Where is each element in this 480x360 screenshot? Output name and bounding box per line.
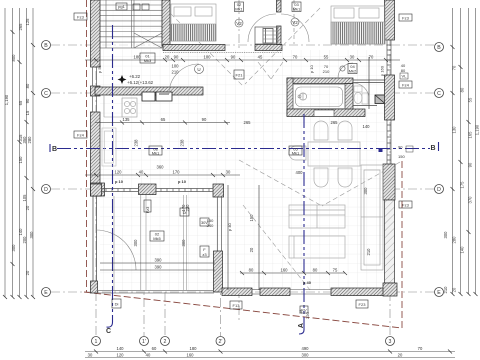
kitchen counter band bbox=[95, 87, 203, 95]
svg-text:Fz3: Fz3 bbox=[402, 203, 409, 208]
svg-text:C: C bbox=[44, 91, 48, 97]
svg-text:40: 40 bbox=[139, 170, 144, 175]
svg-text:Mk2: Mk2 bbox=[349, 69, 357, 74]
bed 2 bbox=[331, 6, 385, 44]
svg-text:Fz3: Fz3 bbox=[145, 206, 150, 213]
dining table + chairs bbox=[289, 121, 360, 187]
svg-text:300: 300 bbox=[302, 353, 310, 358]
svg-text:300: 300 bbox=[443, 231, 448, 239]
svg-text:300: 300 bbox=[29, 231, 34, 239]
svg-text:65: 65 bbox=[18, 100, 23, 105]
svg-text:360: 360 bbox=[157, 165, 165, 170]
rotated small p-texts bbox=[97, 64, 385, 285]
svg-text:240: 240 bbox=[207, 223, 214, 228]
svg-text:150: 150 bbox=[398, 154, 405, 159]
svg-text:C: C bbox=[437, 91, 441, 97]
svg-text:15: 15 bbox=[25, 110, 30, 115]
svg-text:210: 210 bbox=[172, 70, 180, 75]
svg-text:30: 30 bbox=[226, 170, 231, 175]
svg-text:55: 55 bbox=[468, 97, 473, 102]
svg-text:160: 160 bbox=[187, 353, 195, 358]
svg-text:2: 2 bbox=[164, 339, 167, 345]
svg-text:C: C bbox=[106, 328, 111, 335]
sofa + coffee table living bbox=[289, 205, 345, 258]
svg-text:90: 90 bbox=[174, 55, 179, 60]
svg-text:130: 130 bbox=[452, 126, 457, 134]
svg-text:3: 3 bbox=[389, 339, 392, 345]
svg-text:55: 55 bbox=[324, 55, 329, 60]
pantry cupboard bbox=[102, 128, 116, 166]
svg-text:45: 45 bbox=[258, 55, 263, 60]
svg-text:140: 140 bbox=[18, 228, 23, 236]
svg-text:265: 265 bbox=[18, 23, 23, 31]
small circles U / V2 bbox=[195, 18, 346, 74]
svg-text:1: 1 bbox=[95, 339, 98, 345]
svg-text:140: 140 bbox=[117, 346, 125, 351]
left rotated dim texts bbox=[4, 18, 34, 275]
wall right of stairs bbox=[162, 0, 170, 46]
svg-text:65: 65 bbox=[161, 117, 166, 122]
svg-text:U: U bbox=[197, 67, 200, 72]
svg-text:125: 125 bbox=[25, 18, 30, 26]
south wall of living area bbox=[222, 288, 252, 296]
svg-text:80: 80 bbox=[313, 268, 318, 273]
svg-text:p 160: p 160 bbox=[380, 65, 385, 76]
svg-text:180: 180 bbox=[190, 346, 198, 351]
svg-text:70: 70 bbox=[452, 65, 457, 70]
svg-text:80: 80 bbox=[460, 87, 465, 92]
svg-text:370: 370 bbox=[468, 196, 473, 204]
wardrobe bedroom1 bbox=[263, 27, 278, 43]
svg-text:280: 280 bbox=[27, 136, 32, 144]
svg-text:390: 390 bbox=[155, 265, 163, 270]
svg-text:Fz3: Fz3 bbox=[77, 15, 84, 20]
svg-text:20: 20 bbox=[165, 55, 170, 60]
left wall windows bbox=[93, 67, 97, 112]
svg-text:p 10: p 10 bbox=[309, 64, 314, 73]
svg-text:+6.22: +6.22 bbox=[129, 74, 141, 79]
svg-text:300: 300 bbox=[133, 239, 138, 247]
svg-text:20: 20 bbox=[25, 205, 30, 210]
svg-text:70: 70 bbox=[369, 55, 374, 60]
svg-text:p 10: p 10 bbox=[178, 179, 187, 184]
svg-text:+6.12(+13.62: +6.12(+13.62 bbox=[127, 80, 154, 85]
svg-text:490: 490 bbox=[302, 346, 310, 351]
svg-text:120: 120 bbox=[115, 170, 123, 175]
svg-text:70: 70 bbox=[418, 346, 423, 351]
svg-text:B: B bbox=[52, 146, 57, 153]
svg-text:Fz4: Fz4 bbox=[77, 133, 84, 138]
svg-text:265: 265 bbox=[331, 120, 339, 125]
svg-text:160: 160 bbox=[281, 268, 289, 273]
svg-text:20: 20 bbox=[249, 247, 254, 252]
svg-text:p 55: p 55 bbox=[97, 64, 102, 73]
WC fixtures bbox=[354, 86, 368, 104]
svg-text:Mk1: Mk1 bbox=[235, 7, 243, 12]
kitchen stove bbox=[104, 95, 137, 117]
svg-text:40: 40 bbox=[146, 353, 151, 358]
svg-text:390: 390 bbox=[155, 258, 163, 263]
svg-text:Di: Di bbox=[183, 210, 187, 215]
right exterior wall bbox=[385, 0, 395, 40]
svg-text:150: 150 bbox=[249, 214, 254, 222]
svg-text:E: E bbox=[44, 290, 48, 296]
svg-text:30: 30 bbox=[350, 55, 355, 60]
svg-text:1,190: 1,190 bbox=[4, 94, 9, 105]
svg-text:210: 210 bbox=[366, 248, 371, 256]
svg-text:pg1: pg1 bbox=[118, 4, 125, 9]
bathroom top wall bbox=[287, 78, 353, 84]
svg-text:175: 175 bbox=[460, 181, 465, 189]
svg-text:400: 400 bbox=[296, 170, 304, 175]
svg-text:800: 800 bbox=[11, 54, 16, 62]
svg-text:238: 238 bbox=[180, 139, 185, 147]
svg-text:Fz3: Fz3 bbox=[402, 16, 409, 21]
left exterior wall bbox=[91, 0, 105, 196]
svg-text:Fz4: Fz4 bbox=[402, 83, 409, 88]
svg-text:Mk5: Mk5 bbox=[153, 236, 161, 241]
svg-text:Di: Di bbox=[115, 302, 119, 307]
svg-text:200: 200 bbox=[22, 236, 27, 244]
svg-text:p 40: p 40 bbox=[303, 280, 312, 285]
wardrobe right bbox=[361, 165, 383, 270]
svg-text:Mk1: Mk1 bbox=[152, 151, 160, 156]
left glass wall lower bbox=[93, 196, 97, 284]
svg-text:90: 90 bbox=[25, 98, 30, 103]
svg-text:Mk3: Mk3 bbox=[144, 58, 152, 63]
svg-text:2': 2' bbox=[219, 339, 223, 345]
svg-text:30: 30 bbox=[88, 353, 93, 358]
svg-text:90: 90 bbox=[398, 145, 403, 150]
svg-text:V2: V2 bbox=[292, 20, 298, 25]
svg-text:80: 80 bbox=[25, 83, 30, 88]
svg-text:300: 300 bbox=[181, 239, 186, 247]
svg-text:100: 100 bbox=[172, 64, 180, 69]
blue dot on B line bbox=[379, 148, 383, 152]
bathroom bottom wall bbox=[287, 109, 365, 117]
svg-text:p 10: p 10 bbox=[115, 179, 124, 184]
svg-text:75: 75 bbox=[333, 268, 338, 273]
bathroom left wall bbox=[287, 78, 293, 116]
svg-text:140: 140 bbox=[460, 246, 465, 254]
svg-text:90: 90 bbox=[468, 162, 473, 167]
svg-text:140: 140 bbox=[363, 124, 371, 129]
svg-text:B: B bbox=[437, 45, 441, 51]
svg-text:300: 300 bbox=[363, 187, 368, 195]
WC partition walls bbox=[353, 57, 385, 109]
svg-text:90: 90 bbox=[202, 117, 207, 122]
terrace north wall piers + glazing bbox=[91, 184, 102, 196]
bathroom right wall bbox=[345, 84, 353, 110]
svg-text:170: 170 bbox=[173, 170, 181, 175]
svg-text:20: 20 bbox=[25, 270, 30, 275]
svg-text:A: A bbox=[298, 323, 305, 328]
closet bedroom2 bbox=[255, 27, 277, 44]
svg-text:F23: F23 bbox=[359, 302, 367, 307]
svg-text:280: 280 bbox=[452, 236, 457, 244]
svg-text:Mk1: Mk1 bbox=[293, 7, 301, 12]
svg-text:B: B bbox=[44, 43, 48, 49]
svg-text:80: 80 bbox=[249, 268, 254, 273]
svg-text:D: D bbox=[44, 187, 48, 193]
svg-text:220: 220 bbox=[305, 312, 310, 319]
svg-text:KV: KV bbox=[301, 308, 307, 313]
svg-text:1,190: 1,190 bbox=[475, 124, 480, 135]
svg-text:135: 135 bbox=[123, 117, 131, 122]
svg-text:300: 300 bbox=[11, 244, 16, 252]
svg-text:Mk1: Mk1 bbox=[292, 151, 300, 156]
bed 1 bbox=[171, 4, 216, 41]
svg-text:90: 90 bbox=[231, 55, 236, 60]
terrace joist lines bbox=[114, 195, 187, 290]
svg-text:20: 20 bbox=[452, 287, 457, 292]
wall between bedrooms bbox=[277, 0, 282, 12]
svg-text:100: 100 bbox=[204, 55, 212, 60]
svg-text:F21: F21 bbox=[236, 73, 244, 78]
svg-text:1': 1' bbox=[142, 339, 146, 345]
wall under bed1 bbox=[163, 45, 225, 51]
interior dim texts bbox=[115, 55, 374, 273]
svg-text:70: 70 bbox=[293, 55, 298, 60]
svg-text:80: 80 bbox=[401, 68, 406, 73]
svg-text:B: B bbox=[431, 145, 436, 152]
shaft dark bbox=[375, 95, 385, 104]
bathroom tub bbox=[293, 85, 345, 109]
svg-text:VL: VL bbox=[402, 74, 408, 79]
svg-text:D: D bbox=[437, 187, 441, 193]
svg-text:238: 238 bbox=[134, 139, 139, 147]
svg-text:p 40: p 40 bbox=[227, 222, 232, 231]
living west wall bbox=[218, 197, 222, 251]
terrace bottom edge bbox=[97, 291, 214, 294]
svg-text:60: 60 bbox=[152, 346, 157, 351]
svg-text:165: 165 bbox=[468, 131, 473, 139]
svg-text:210: 210 bbox=[323, 69, 330, 74]
svg-text:E: E bbox=[437, 290, 441, 296]
svg-text:F13: F13 bbox=[233, 303, 241, 308]
svg-text:105: 105 bbox=[22, 194, 27, 202]
svg-text:265: 265 bbox=[244, 120, 252, 125]
svg-text:20: 20 bbox=[398, 353, 403, 358]
svg-text:120: 120 bbox=[117, 353, 125, 358]
svg-text:V2: V2 bbox=[236, 21, 242, 26]
svg-text:150: 150 bbox=[18, 156, 23, 164]
grid circles bottom bbox=[92, 337, 395, 346]
